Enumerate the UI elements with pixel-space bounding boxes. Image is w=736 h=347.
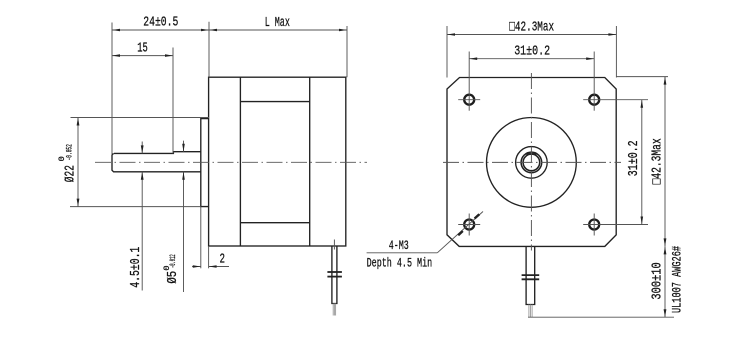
svg-text:31±0.2: 31±0.2	[514, 44, 550, 59]
svg-text:-0.012: -0.012	[168, 254, 178, 268]
svg-text:300±10: 300±10	[651, 262, 666, 299]
svg-text:L Max: L Max	[265, 16, 290, 31]
svg-text:31±0.2: 31±0.2	[627, 140, 642, 176]
svg-text:-0.052: -0.052	[65, 144, 75, 160]
svg-text:□42.3Max: □42.3Max	[509, 20, 554, 36]
svg-text:Ø5: Ø5	[165, 271, 181, 284]
svg-text:2: 2	[220, 253, 226, 268]
svg-text:□42.3Max: □42.3Max	[651, 138, 666, 184]
svg-text:Ø22: Ø22	[63, 165, 79, 182]
svg-text:24±0.5: 24±0.5	[143, 16, 178, 31]
svg-text:4-M3: 4-M3	[389, 238, 409, 253]
svg-text:15: 15	[137, 42, 148, 57]
svg-text:4.5±0.1: 4.5±0.1	[129, 247, 144, 288]
svg-text:Depth 4.5 Min: Depth 4.5 Min	[367, 256, 433, 271]
svg-text:UL1007 AWG26#: UL1007 AWG26#	[670, 246, 685, 313]
